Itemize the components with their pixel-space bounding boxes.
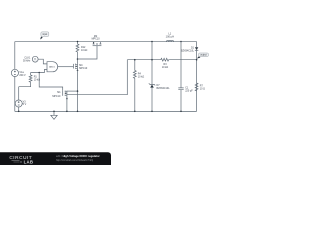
node output flag xyxy=(197,53,209,59)
wire output column xyxy=(196,42,198,48)
svg-text:output: output xyxy=(200,54,207,57)
capacitor C1 xyxy=(178,87,193,93)
node zener/divider xyxy=(151,59,153,61)
inductor L1 xyxy=(166,31,174,41)
transistor M4 xyxy=(74,64,88,71)
node M4 source bottom xyxy=(77,111,79,113)
node R4 bottom xyxy=(134,111,136,113)
wire M4 drain up xyxy=(77,59,79,64)
svg-text:10 Ω: 10 Ω xyxy=(200,88,205,91)
svg-text:10 kΩ: 10 kΩ xyxy=(138,75,145,78)
wire M4 source down xyxy=(77,69,79,112)
node V3-bottom xyxy=(18,111,20,113)
svg-text:10 kΩ: 10 kΩ xyxy=(81,49,88,52)
wire feedback from divider xyxy=(67,60,127,95)
svg-text:MPC10: MPC10 xyxy=(79,67,88,70)
wire CLK to AND top input xyxy=(38,59,47,64)
node M1 drain / M4 source xyxy=(77,90,79,92)
diode D1 xyxy=(181,47,198,53)
node input flag xyxy=(40,32,49,40)
node divider right xyxy=(196,59,198,61)
footer watermark bar xyxy=(0,152,111,165)
transistor M1 xyxy=(52,91,68,100)
resistor R1 xyxy=(19,73,41,87)
node R4 top xyxy=(134,59,136,61)
wire AND output xyxy=(58,66,74,68)
node R12/M4/gate-wire xyxy=(77,58,79,60)
node zener bottom xyxy=(151,111,153,113)
wire left V1 branch xyxy=(14,42,16,70)
resistor R4 xyxy=(133,60,144,112)
resistor R7 xyxy=(195,83,205,91)
svg-text:input: input xyxy=(42,33,47,36)
voltage source V3 xyxy=(15,87,26,112)
svg-text:200 V: 200 V xyxy=(19,74,26,77)
wire divider rail (y60) xyxy=(127,59,161,61)
svg-text:10 kΩ: 10 kΩ xyxy=(162,66,169,69)
svg-text:50 kHz: 50 kHz xyxy=(23,60,31,63)
svg-text:edit / High Voltage DCDC regul: edit / High Voltage DCDC regulator xyxy=(56,154,100,158)
svg-text:MPC10: MPC10 xyxy=(52,95,61,98)
svg-text:220 µF: 220 µF xyxy=(185,90,193,93)
svg-text:BZX84C10L: BZX84C10L xyxy=(181,49,195,52)
voltage source V1a xyxy=(11,69,26,77)
svg-text:LAB: LAB xyxy=(24,159,34,164)
svg-text:MPC10: MPC10 xyxy=(92,37,101,40)
resistor R3 xyxy=(161,58,170,69)
wire feedback to M1 gate xyxy=(39,73,63,91)
ground xyxy=(51,111,57,119)
svg-text:http://circuitlab.com/c9t3ea2m: http://circuitlab.com/c9t3ea2m7rk3j xyxy=(56,159,93,162)
wire M1 source down xyxy=(66,96,68,111)
wire AND lower input xyxy=(31,70,47,73)
resistor R12 xyxy=(76,42,87,60)
node M1 source bottom xyxy=(66,111,68,113)
wire M1 drain xyxy=(67,90,78,92)
node zener top rail xyxy=(151,41,153,43)
svg-text:5 V: 5 V xyxy=(23,103,27,106)
clock source CLK1 xyxy=(23,56,38,62)
svg-text:100 µH: 100 µH xyxy=(166,34,174,38)
wire C1 branch xyxy=(180,42,182,88)
node C1 top xyxy=(180,41,182,43)
diode D7 zener xyxy=(149,83,170,90)
wire top rail xyxy=(15,41,197,43)
node C1 bottom xyxy=(180,111,182,113)
node R12 top xyxy=(77,41,79,43)
wire M2 gate xyxy=(78,46,98,59)
svg-text:BZX84C10L: BZX84C10L xyxy=(157,87,171,90)
wire zener branch xyxy=(151,42,153,84)
transistor M2 xyxy=(92,35,102,46)
node R1 top junction xyxy=(38,72,40,74)
svg-text:AND1: AND1 xyxy=(49,65,55,68)
wire bottom rail xyxy=(15,110,197,112)
node ground stem xyxy=(53,111,55,113)
logic gate AND1 xyxy=(47,62,58,72)
